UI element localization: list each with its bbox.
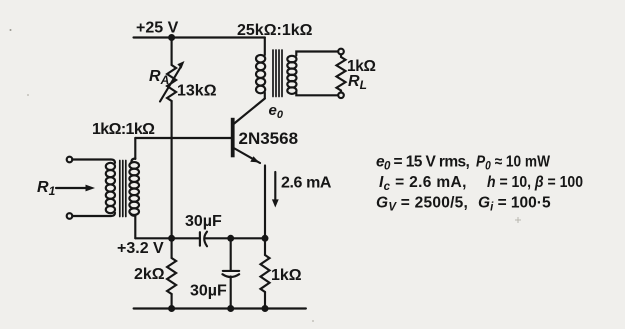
svg-text:h = 10, β = 100: h = 10, β = 100	[487, 174, 583, 191]
capacitor C2 30uF bypass wire top	[230, 238, 232, 271]
transformer T2 secondary winding	[287, 56, 296, 94]
transformer T2 core	[273, 50, 282, 97]
current arrow 2.6 mA	[274, 172, 276, 201]
transformer T2 primary winding	[256, 55, 265, 93]
wire T2 primary bottom stub	[264, 93, 266, 99]
node dot bias/2k junction	[168, 235, 175, 242]
resistor 1k emitter	[264, 238, 266, 255]
svg-text:Gi = 100·5: Gi = 100·5	[478, 195, 551, 214]
svg-text:1kΩ: 1kΩ	[271, 267, 302, 284]
node dot bypass cap junction	[227, 235, 234, 242]
wire T2 primary bottom to collector	[234, 99, 265, 124]
paper speck bottom	[312, 320, 314, 322]
node dot emitter junction	[262, 235, 269, 242]
paper speck left	[27, 94, 29, 96]
paper speck right	[515, 217, 521, 223]
wire RL top lead	[340, 54, 342, 57]
svg-text:2N3568: 2N3568	[239, 129, 299, 148]
wire T2 secondary top to terminal	[296, 52, 338, 56]
svg-text:Ic = 2.6 mA,: Ic = 2.6 mA,	[379, 174, 467, 193]
node dot ground 1k	[262, 305, 269, 312]
wire +25V supply rail	[134, 36, 265, 38]
transistor Q1 emitter with arrow	[235, 149, 260, 164]
terminal output top	[338, 49, 344, 55]
svg-text:+3.2 V: +3.2 V	[117, 240, 164, 257]
wire input bottom lead	[72, 215, 111, 217]
wire emitter vertical to node	[264, 166, 266, 239]
capacitor C1 30uF coupling flat plate	[199, 232, 201, 246]
svg-text:1kΩ:1kΩ: 1kΩ:1kΩ	[92, 121, 155, 138]
capacitor C2 flat plate	[223, 270, 239, 272]
arrow through RA (variable resistor)	[160, 67, 181, 102]
svg-text:2.6 mA: 2.6 mA	[281, 175, 332, 192]
transformer T1 core	[120, 161, 126, 217]
capacitor C1 curved plate	[204, 232, 207, 247]
wire T1 secondary top stub to base line	[134, 138, 136, 159]
svg-text:30µF: 30µF	[190, 283, 227, 300]
resistor 2k bias lower	[171, 238, 173, 258]
svg-text:e0 = 15 V rms,: e0 = 15 V rms,	[376, 154, 470, 173]
terminal input bottom	[67, 213, 73, 219]
wire T1 secondary bottom stub to +3.2V node	[134, 215, 136, 238]
arrow from R1 to transformer	[56, 187, 88, 189]
resistor RL zigzag	[337, 57, 346, 90]
wire bias vertical RA to +3.2V node (crosses base line)	[171, 101, 173, 238]
wire T2 secondary bottom to terminal	[296, 93, 338, 96]
wire RL bottom lead	[340, 91, 342, 93]
node dot ground cap	[227, 305, 234, 312]
svg-text:13kΩ: 13kΩ	[177, 83, 217, 100]
svg-text:2kΩ: 2kΩ	[134, 266, 165, 283]
node junction on +25V rail	[168, 34, 175, 41]
svg-text:+25 V: +25 V	[136, 20, 179, 37]
wire node line right of capacitor	[205, 237, 266, 239]
paper speck top left	[10, 29, 12, 31]
transistor Q1 base bar	[231, 118, 235, 158]
transformer T1 secondary winding	[129, 159, 139, 216]
node dot ground 2k	[168, 305, 175, 312]
terminal output bottom	[338, 93, 344, 99]
svg-text:30µF: 30µF	[185, 213, 222, 230]
svg-text:25kΩ:1kΩ: 25kΩ:1kΩ	[237, 22, 313, 39]
wire +3.2V node line left of capacitor	[135, 237, 200, 239]
capacitor C2 curved plate	[222, 274, 239, 277]
wire input top lead	[72, 158, 111, 160]
resistor RA 13k zigzag (variable)	[167, 65, 176, 101]
wire rail corner down to T2 primary	[264, 38, 266, 56]
wire bias vertical from rail to RA	[171, 38, 173, 66]
terminal input top	[67, 157, 73, 163]
wire base line from T1 secondary to base	[135, 137, 231, 139]
transformer T1 primary winding	[106, 160, 115, 217]
capacitor C2 wire bottom	[230, 277, 232, 309]
wire ground rail	[134, 307, 306, 309]
